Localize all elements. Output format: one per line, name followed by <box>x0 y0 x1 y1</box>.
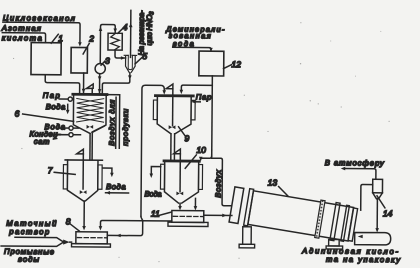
svg-text:12: 12 <box>232 59 242 69</box>
svg-text:кислота: кислота <box>2 33 43 42</box>
svg-text:продувки: продувки <box>121 109 130 146</box>
label Промывные воды <box>4 247 54 264</box>
filter 11 <box>168 210 208 226</box>
label Азотная кислота <box>1 24 43 43</box>
wire jacket water outlet of vessel 10 <box>149 167 160 178</box>
svg-text:Циклогексанол: Циклогексанол <box>3 13 76 23</box>
label 1 <box>51 33 63 43</box>
svg-text:3: 3 <box>105 56 110 66</box>
label 5 <box>135 51 147 64</box>
label Вода (coil outlet) <box>46 102 66 111</box>
wire condensate line out with arrow <box>52 132 80 140</box>
vessel 7 dissolver <box>63 160 102 201</box>
wire branch into vessel 10 lid <box>199 156 212 161</box>
svg-text:Азотная: Азотная <box>1 24 41 33</box>
label Конденсат <box>29 129 61 146</box>
svg-text:6: 6 <box>15 108 20 118</box>
agitator of vessel 7 <box>76 149 87 194</box>
wire air line into dryer <box>211 150 231 206</box>
support stand left <box>239 227 255 248</box>
wire vessel 10 outlet pipes into filter 11 <box>178 198 197 210</box>
wire mother liquor line <box>15 237 64 242</box>
label Воздух (vertical near dryer) <box>214 170 223 198</box>
crystallizer 6 <box>72 94 108 134</box>
label Пар (vessel 9) <box>191 92 211 103</box>
wire heat exchanger 4 outlet to separator 5 <box>115 50 126 60</box>
label 3 <box>101 56 110 66</box>
wire nitric acid feed line into vessel 1 <box>2 33 45 43</box>
wire water supply line under label <box>106 191 129 195</box>
label 4 <box>118 22 128 33</box>
svg-text:цию HNO3: цию HNO3 <box>145 11 156 46</box>
svg-text:Вода: Вода <box>106 182 126 191</box>
svg-text:7: 7 <box>48 165 53 175</box>
svg-text:11: 11 <box>151 209 160 219</box>
separator 5 <box>124 55 137 72</box>
label 11 <box>151 209 171 219</box>
wire crystallizer 6 outlet pipe to vessel 7 <box>90 132 92 160</box>
wire vent line to atmosphere <box>341 167 376 180</box>
label Циклогексанол <box>3 13 76 23</box>
svg-text:Вода: Вода <box>46 102 66 111</box>
svg-text:4: 4 <box>123 22 128 32</box>
svg-text:10: 10 <box>196 145 206 155</box>
svg-text:Вода: Вода <box>144 189 161 198</box>
label 2 <box>83 34 94 55</box>
wire vessel 12 outlet down with branch into vessel 9 <box>179 76 212 157</box>
agitator of vessel 9 <box>166 84 176 129</box>
heat exchanger 4 <box>108 33 122 50</box>
agitator of vessel 10 <box>173 149 183 195</box>
label Пар (crystallizer 6) <box>43 91 60 100</box>
label Вода (condenser) <box>45 122 66 131</box>
svg-text:9: 9 <box>184 133 189 143</box>
wire filtrate line from filter 11 down into filter 8 <box>99 220 172 231</box>
vessel 1 mixer <box>31 43 61 75</box>
svg-text:14: 14 <box>383 208 393 218</box>
wire cyclone 14 dust outlet into trough <box>375 199 379 233</box>
svg-text:Пар: Пар <box>196 92 212 101</box>
label 8 <box>66 216 80 231</box>
vessel 12 water tank <box>199 51 224 76</box>
label 9 <box>178 127 189 144</box>
wire vessel 7 outlet into filter 8 <box>82 201 86 230</box>
wire dryer offgas duct to cyclone 14 <box>361 184 373 210</box>
agitator of crystallizer 6 <box>86 84 93 129</box>
label 13 <box>268 177 289 196</box>
label Адипиновая кислота на упаковку <box>301 246 401 264</box>
svg-text:та на упаковку: та на упаковку <box>326 255 401 265</box>
pump 3 <box>95 63 105 73</box>
vessel 9 dissolver <box>153 95 195 134</box>
svg-text:сат: сат <box>34 137 50 146</box>
wire steam line into coil of 6 <box>59 97 73 101</box>
cooling coil inside crystallizer 6 <box>77 98 104 122</box>
label 12 <box>224 59 242 69</box>
cyclone 14 <box>373 179 383 198</box>
product trough <box>355 232 391 244</box>
svg-text:Воздух: Воздух <box>214 170 223 198</box>
svg-text:Пар: Пар <box>43 91 60 100</box>
support stand right <box>326 239 343 249</box>
wire jacket water outlet of vessel 7 <box>102 168 113 177</box>
wire vessel 2 outlet down into crystallizer 6 <box>82 73 86 93</box>
wire pump 3 discharge riser to heat exchanger 4 <box>98 25 117 64</box>
svg-text:раствор: раствор <box>8 227 50 236</box>
filter 8 <box>72 232 111 247</box>
label 10 <box>185 145 206 169</box>
rotary dryer 13 <box>229 186 358 244</box>
wire demineralized water line into vessel 12 <box>173 47 213 51</box>
wire separator 5 bottom return into crystallizer 6 <box>102 73 131 94</box>
wire water drain with down arrow <box>66 104 70 114</box>
label Вода (vessel 10) <box>144 189 161 198</box>
vessel 2 cyclohexanol tank <box>71 47 87 73</box>
svg-text:2: 2 <box>88 34 94 44</box>
label В атмосферу <box>325 158 385 167</box>
svg-text:В атмосферу: В атмосферу <box>325 158 385 167</box>
label 6 <box>15 108 74 121</box>
wire riser from filters up into vessel 9 with pipe hop <box>107 85 166 238</box>
svg-text:воды: воды <box>18 255 39 264</box>
label Деминерализованная вода <box>165 24 225 48</box>
wire purge air pipe from crystallizer 6 lid <box>92 94 120 148</box>
wire cyclohexanol feed line into vessel 2 <box>3 22 82 46</box>
wire filter 11 cake outlet to dryer <box>204 213 232 217</box>
label Маточный раствор <box>6 219 57 237</box>
svg-text:8: 8 <box>66 216 71 226</box>
label Вода (vessel 7) <box>106 182 126 191</box>
wire vessel 9 outlet to vessel 10 <box>171 134 175 161</box>
wire water line with flange circle <box>57 126 79 130</box>
svg-text:1: 1 <box>58 33 63 43</box>
wire pump 3 line down into crystallizer 6 <box>98 74 102 94</box>
label 14 <box>377 196 393 219</box>
label Воздух для продувки (vertical) <box>107 100 130 146</box>
wire separator 5 vapor riser to HNO3 regeneration <box>129 10 133 57</box>
label На регенерацию HNO3 (vertical) <box>137 10 156 56</box>
svg-text:13: 13 <box>268 177 278 187</box>
wire vessel 1 outlet to crystallizer 6 <box>45 75 80 94</box>
vessel 10 dissolver <box>160 160 202 203</box>
wire wash water line joining arrow into filter 8 <box>1 239 71 247</box>
label 7 <box>48 165 76 175</box>
